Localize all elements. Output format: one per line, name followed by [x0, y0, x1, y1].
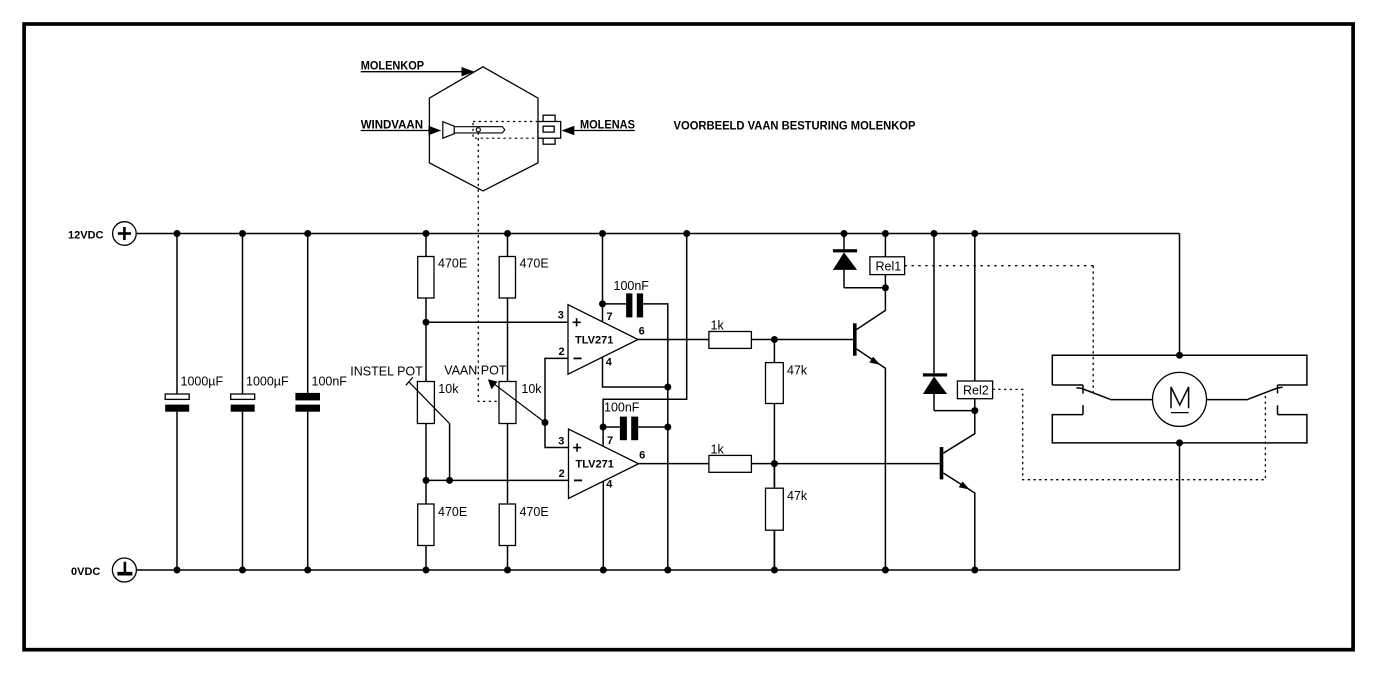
potentiometer VAAN POT 10k: [444, 364, 545, 424]
svg-text:2: 2: [558, 346, 564, 358]
capacitor C5 100nF at op2: [603, 401, 668, 441]
wire 0V rail: [136, 569, 1179, 571]
svg-text:1000µF: 1000µF: [246, 375, 289, 389]
wire relay Rel2 coil drop: [974, 234, 976, 411]
right fixed contact stubs: [1277, 385, 1279, 393]
wire 1k to Q2 base: [751, 463, 939, 465]
left motor terminal wire: [1110, 399, 1152, 401]
svg-text:1k: 1k: [711, 319, 725, 333]
svg-text:1k: 1k: [711, 443, 725, 457]
svg-text:6: 6: [639, 325, 645, 337]
wire INSTEL wiper to op2 pin2: [426, 479, 569, 481]
svg-text:TLV271: TLV271: [576, 459, 614, 471]
wire op2 pin7 stub: [602, 427, 604, 447]
svg-text:VOORBEELD VAAN BESTURING MOLEN: VOORBEELD VAAN BESTURING MOLENKOP: [674, 119, 916, 133]
svg-text:0VDC: 0VDC: [71, 566, 100, 578]
wire relay Rel1 coil drop: [884, 234, 886, 288]
svg-text:12VDC: 12VDC: [68, 229, 104, 241]
vane pivot: [476, 128, 480, 132]
12VDC source: [113, 222, 137, 246]
svg-text:2: 2: [559, 468, 565, 480]
hexagon MOLENKOP: [429, 67, 538, 191]
svg-text:MOLENAS: MOLENAS: [580, 117, 635, 131]
relay Rel1: [870, 257, 905, 275]
wire INSTEL node to op1 pin3: [426, 321, 568, 323]
wire op2 pin4 to 0V rail: [602, 481, 604, 570]
svg-text:470E: 470E: [438, 257, 467, 271]
resistor R2 470E bottom of INSTEL chain: [418, 424, 468, 571]
relay Rel2: [957, 381, 992, 399]
windvaan vane cone: [443, 122, 455, 139]
motor frame bracket: [1052, 355, 1307, 443]
dotted rect molenas zone: [473, 122, 538, 139]
molenas shaft bolt: [538, 115, 561, 144]
left fixed contact stubs: [1082, 385, 1084, 394]
svg-text:1000µF: 1000µF: [181, 375, 224, 389]
left contact arm: [1076, 388, 1110, 400]
resistor R3 470E top of VAAN chain: [499, 234, 549, 382]
diode D2: [923, 234, 975, 411]
transistor Q1: [853, 288, 885, 570]
wire 1k to Q1 base: [751, 339, 853, 341]
svg-text:TLV271: TLV271: [575, 335, 613, 347]
svg-text:10k: 10k: [438, 382, 459, 396]
svg-text:WINDVAAN: WINDVAAN: [361, 117, 423, 131]
svg-text:Rel2: Rel2: [963, 384, 989, 398]
motor M1: [1153, 372, 1207, 426]
dotted link Rel1 to left contact: [905, 265, 1094, 267]
right motor terminal wire: [1207, 399, 1248, 401]
wire op1 output: [638, 339, 709, 341]
svg-text:100nF: 100nF: [614, 279, 650, 293]
op-amp U2 TLV271: [558, 429, 645, 499]
svg-text:INSTEL POT: INSTEL POT: [350, 365, 423, 379]
resistor R8 47k: [766, 464, 808, 570]
diode D1: [833, 234, 886, 288]
capacitor C4 100nF at op1: [603, 279, 668, 387]
svg-text:6: 6: [639, 450, 645, 462]
wire node to 0V rail: [667, 387, 669, 570]
svg-text:47k: 47k: [787, 489, 808, 503]
svg-text:470E: 470E: [438, 505, 467, 519]
right contact arm: [1248, 387, 1283, 399]
wire 12V rail: [136, 233, 1179, 235]
svg-text:Rel1: Rel1: [876, 259, 902, 273]
svg-text:4: 4: [606, 357, 613, 369]
capacitor C2 1000uF: [231, 234, 289, 571]
svg-text:VAAN POT: VAAN POT: [444, 364, 507, 378]
capacitor C1 1000uF: [165, 234, 223, 571]
capacitor C3 100nF: [295, 234, 347, 571]
svg-text:7: 7: [607, 311, 613, 323]
dotted link vane to VAAN POT: [478, 133, 498, 402]
svg-text:3: 3: [558, 309, 564, 321]
wire motor bottom to 0V rail: [1179, 443, 1181, 570]
svg-text:7: 7: [607, 435, 613, 447]
svg-text:470E: 470E: [520, 505, 549, 519]
resistor R7 1k: [709, 443, 752, 473]
svg-text:MOLENKOP: MOLENKOP: [361, 59, 424, 73]
svg-text:10k: 10k: [521, 382, 542, 396]
wire op1 pin4 to node: [603, 357, 668, 387]
transistor Q2: [940, 411, 975, 570]
svg-text:3: 3: [558, 435, 564, 447]
wire VAAN wiper node to op1 pin2 / op2 pin3: [545, 358, 569, 447]
svg-text:100nF: 100nF: [604, 401, 640, 415]
svg-text:100nF: 100nF: [312, 375, 348, 389]
wire 12V rail drop to motor: [1179, 234, 1181, 356]
wire op2 output: [639, 463, 709, 465]
0VDC ground: [112, 558, 136, 582]
resistor R1 470E top of INSTEL chain: [418, 234, 468, 382]
dotted link Rel2 to right contact: [993, 389, 1266, 479]
potentiometer INSTEL POT 10k: [350, 365, 459, 481]
resistor R6 47k: [766, 340, 808, 571]
svg-text:470E: 470E: [520, 257, 549, 271]
wire op1 pin7 to 12V rail: [602, 234, 604, 322]
wire 12V jog to op2 pin7: [603, 234, 687, 428]
svg-text:4: 4: [606, 479, 613, 491]
op-amp U1 TLV271: [558, 305, 645, 375]
windvaan shaft: [454, 127, 505, 133]
resistor R5 1k: [709, 319, 752, 349]
resistor R4 470E bottom of VAAN chain: [499, 424, 549, 571]
svg-text:47k: 47k: [787, 364, 808, 378]
